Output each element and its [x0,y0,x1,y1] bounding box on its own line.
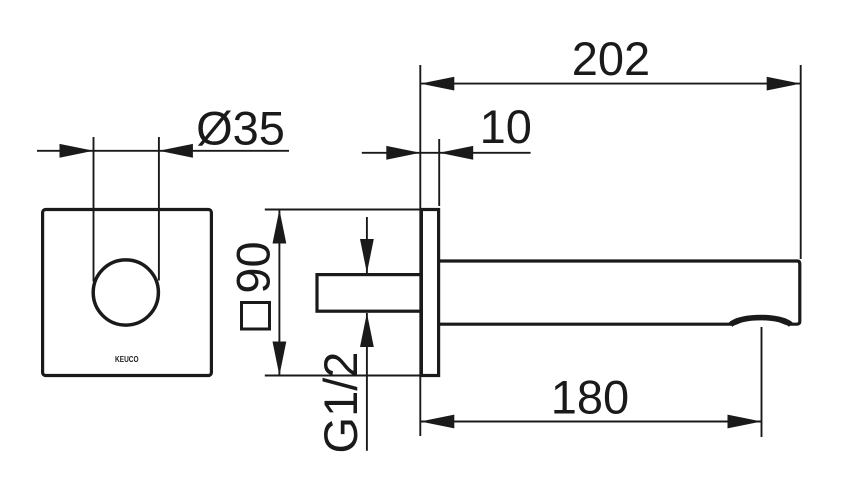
dimension D35: right extension line [158,137,160,281]
dimension G1/2: lower arrowhead [360,313,374,347]
svg-text:Ø35: Ø35 [196,102,285,155]
front view: square escutcheon plate [43,210,212,376]
side view: outlet recess arc [731,318,792,325]
dimension 10: right arrowhead [439,146,473,160]
dimension 90: bottom arrowhead [273,342,287,376]
side view: wall flange plate [421,210,438,376]
dimension 202: right arrowhead [767,77,801,91]
front view: spout outlet circle [93,260,158,325]
dimension 180: right extension line (outlet axis) [761,327,763,437]
dimension 202: left extension line (wall face) [419,65,421,436]
dimension 180: left arrowhead [420,415,454,429]
dimension 10: left arrowhead [386,146,420,160]
dimension D35: dimension line [37,150,289,152]
side view: G1/2 threaded nipple [317,275,421,312]
dimension D35: right arrowhead [159,144,193,158]
dimension 202: dimension line [420,83,800,85]
dimension 202: right extension line (spout tip) [800,65,802,259]
dimension 90: square symbol [242,303,270,330]
svg-text:G1/2: G1/2 [314,352,367,454]
dimension 202: left arrowhead [420,77,454,91]
svg-text:180: 180 [551,371,629,424]
dimension 180: right arrowhead [728,415,762,429]
dimension 90: top arrowhead [273,210,287,244]
dimension G1/2: upper arrowhead [360,239,374,273]
svg-text:90: 90 [227,241,280,293]
svg-text:202: 202 [572,32,650,85]
dimension 10: right extension line [438,139,440,206]
dimension 10: dimension line with tails [362,152,531,154]
dimension G1/2: upper arrow leader [366,217,368,273]
side view: spout tube outline [439,261,800,324]
svg-text:KEUCO: KEUCO [115,354,139,364]
dimension 90: dimension line [278,210,280,376]
dimension 90: bottom witness line [265,375,438,377]
dimension D35: left extension line [93,137,95,282]
dimension G1/2: lower arrow leader [366,313,368,451]
svg-text:10: 10 [480,100,532,153]
dimension D35: left arrowhead [60,144,94,158]
dimension 90: top witness line [265,209,438,211]
dimension 180: dimension line [420,421,761,423]
